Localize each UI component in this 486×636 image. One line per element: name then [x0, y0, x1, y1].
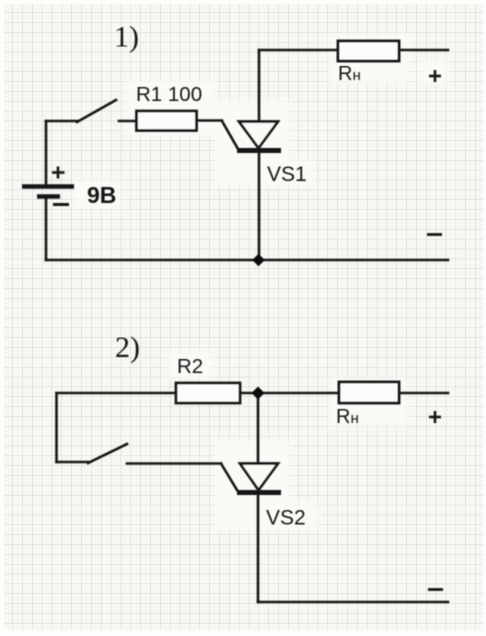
wire: gate horizontal	[127, 462, 221, 465]
wire: switch left horizontal	[46, 120, 77, 123]
svg-text:Rн: Rн	[338, 63, 361, 85]
wire: cathode lead VS1	[258, 151, 261, 260]
wire: cathode lead VS2	[257, 492, 260, 602]
svg-text:R2: R2	[177, 355, 203, 378]
plus terminal circuit 1	[429, 70, 441, 82]
wire: battery top lead	[45, 121, 48, 184]
svg-text:1): 1)	[114, 21, 139, 54]
white halo patches under drawing	[75, 35, 448, 530]
wire: anode lead VS1	[258, 50, 261, 121]
thyristor VS1 cathode bar	[237, 148, 281, 153]
svg-text:R1 100: R1 100	[136, 83, 202, 106]
battery minus sign	[53, 203, 69, 206]
wire: Rn to + terminal	[399, 49, 448, 52]
resistor R2	[176, 383, 240, 403]
thyristor VS2 cathode bar	[237, 490, 281, 495]
thyristor VS1 triangle	[239, 122, 278, 149]
svg-text:9В: 9В	[87, 182, 116, 208]
junction node circuit 2	[252, 387, 265, 400]
minus terminal circuit 2	[428, 588, 443, 591]
minus terminal circuit 1	[427, 233, 442, 236]
wire: left vertical	[55, 393, 58, 462]
wire: bottom rail circuit 1	[46, 259, 448, 262]
resistor Rn load circuit 1	[338, 41, 399, 61]
svg-text:2): 2)	[115, 331, 140, 364]
resistor R1	[137, 111, 197, 131]
wire: R2 to Rn rail	[240, 392, 339, 395]
wire: switch bottom horizontal	[57, 461, 89, 464]
wire: bottom rail circuit 2	[258, 601, 448, 604]
wire: gate diagonal VS2	[221, 464, 237, 491]
plus terminal circuit 2	[429, 411, 441, 423]
wire: anode lead VS2	[257, 393, 260, 463]
wire: battery bottom lead	[45, 198, 48, 260]
switch SA2 blade	[88, 444, 127, 463]
resistor Rn load circuit 2	[339, 382, 399, 403]
thyristor VS2 triangle	[240, 464, 278, 491]
wire: top rail left of R2	[57, 392, 177, 395]
svg-text:Rн: Rн	[336, 406, 359, 428]
switch SA1 blade	[77, 100, 116, 122]
wire: switch contact to R1	[119, 120, 137, 123]
svg-text:VS1: VS1	[267, 163, 307, 186]
battery plus sign	[52, 167, 65, 179]
svg-text:VS2: VS2	[266, 507, 306, 530]
wire: R1 to gate	[196, 119, 222, 122]
battery GB1 plate short	[37, 194, 60, 198]
wire: gate diagonal	[222, 121, 238, 149]
battery GB1 plate long	[22, 184, 74, 189]
wire: Rn to + terminal circuit 2	[398, 392, 448, 395]
wire: top rail to Rn	[259, 49, 338, 52]
junction node circuit 1	[252, 254, 265, 267]
